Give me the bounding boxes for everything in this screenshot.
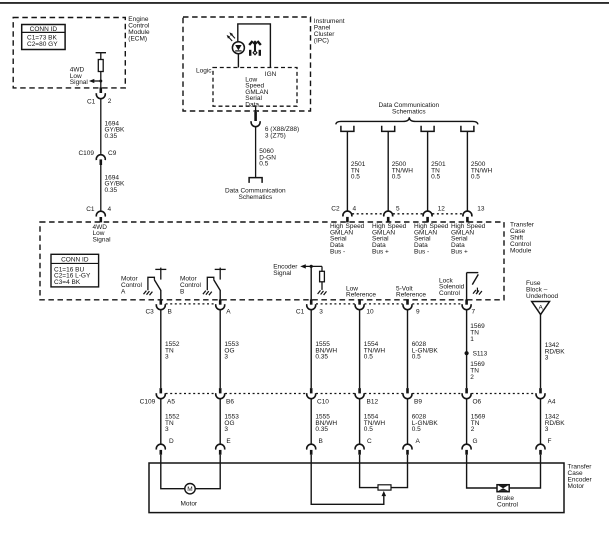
label 2501 TN 0.5 <box>431 161 446 181</box>
ECM label <box>128 16 150 43</box>
indicator lamp (4WD light) <box>227 32 245 67</box>
connector encoder motor pin F <box>536 438 552 463</box>
lock solenoid switch <box>467 273 479 300</box>
wire 2501 TN <box>427 131 429 211</box>
connector encoder motor pin E <box>216 438 232 463</box>
svg-text:B: B <box>168 308 172 315</box>
svg-text:Reference: Reference <box>346 292 376 299</box>
svg-text:0.5: 0.5 <box>431 174 440 181</box>
label 1553 OG 3 (lower) <box>224 414 239 434</box>
svg-text:3 (Z75): 3 (Z75) <box>265 133 286 140</box>
svg-text:2: 2 <box>471 426 475 433</box>
5-Volt Reference label <box>396 285 426 298</box>
wire 1342 RD/BK (lower) <box>540 399 542 444</box>
svg-text:G: G <box>473 438 478 445</box>
connector C109 pin A4 <box>536 388 556 406</box>
Engine Control Module (ECM) box <box>13 18 125 88</box>
svg-text:C109: C109 <box>140 399 156 406</box>
svg-text:2: 2 <box>108 98 112 105</box>
svg-text:A5: A5 <box>167 399 175 406</box>
resistor R (4WD low signal pull-up, in ECM) <box>96 53 106 88</box>
connector C1 pin 3 (TCSCM bottom) <box>296 299 323 315</box>
Logic label <box>196 67 212 74</box>
wire 1554 TN/WH (lower) <box>359 399 361 444</box>
svg-text:0.5: 0.5 <box>364 426 373 433</box>
svg-text:Reference: Reference <box>396 292 426 299</box>
label 1552 TN 3 (lower) <box>165 414 180 434</box>
svg-text:C9: C9 <box>108 150 117 157</box>
svg-text:0.5: 0.5 <box>364 354 373 361</box>
svg-text:C1: C1 <box>87 98 96 105</box>
brace <box>336 117 478 124</box>
svg-text:M: M <box>187 486 192 493</box>
svg-text:Control: Control <box>497 502 519 509</box>
Brake Control label <box>497 495 519 509</box>
svg-text:CONN ID: CONN ID <box>30 26 58 33</box>
4WD Low Signal label (ECM) <box>70 67 89 87</box>
label 1552 TN 3 (upper) <box>165 341 180 361</box>
connector C1 pin 7 (TCSCM bottom) <box>462 299 475 315</box>
svg-text:C109: C109 <box>78 150 94 157</box>
C2 label <box>331 206 340 213</box>
svg-text:Data: Data <box>245 102 259 109</box>
motor M (transfer case encoder motor) <box>161 463 220 494</box>
wire 1554 TN/WH (upper) <box>359 310 361 388</box>
High Speed GMLAN Serial Data Bus - label <box>330 223 365 255</box>
svg-text:Underhood: Underhood <box>526 293 559 300</box>
label 1569 TN 2 (upper) <box>470 361 485 381</box>
svg-text:0.35: 0.35 <box>315 426 328 433</box>
wire 1553 OG (lower) <box>219 399 221 444</box>
svg-text:3: 3 <box>224 426 228 433</box>
4WD low signal arrow <box>89 79 102 83</box>
Motor Control B label <box>180 276 202 296</box>
svg-text:Schematics: Schematics <box>238 194 272 201</box>
Transfer Case Shift Control Module box <box>40 222 504 300</box>
svg-text:5: 5 <box>396 206 400 213</box>
svg-text:CONN ID: CONN ID <box>61 257 89 264</box>
svg-text:3: 3 <box>319 308 323 315</box>
svg-text:3: 3 <box>224 354 228 361</box>
High Speed GMLAN Serial Data Bus + label <box>451 223 486 255</box>
label 1342 RD/BK 3 (lower) <box>545 414 566 434</box>
connector C109 pin A5 <box>156 388 175 406</box>
wire 1553 OG (upper) <box>219 310 221 388</box>
wire 1552 TN (upper) <box>160 310 162 388</box>
svg-text:Control: Control <box>439 290 461 297</box>
svg-text:B: B <box>180 288 184 295</box>
svg-text:Motor: Motor <box>180 500 197 507</box>
connector C109 pin B6 <box>216 388 235 406</box>
label 1569 TN 2 (lower) <box>471 414 486 434</box>
svg-text:A: A <box>416 438 421 445</box>
svg-text:F: F <box>548 438 552 445</box>
label 1553 OG 3 (upper) <box>224 341 239 361</box>
connector 6 (X88/Z88) 3 (Z75) <box>251 107 299 140</box>
wire 1555 BN/WH (lower) <box>310 399 312 444</box>
svg-text:C2=80 GY: C2=80 GY <box>27 41 58 48</box>
svg-text:0.5: 0.5 <box>471 174 480 181</box>
label 6028 L-GN/BK 0.5 (lower) <box>412 414 439 434</box>
off-page connector to data communication schematics <box>249 178 262 183</box>
svg-text:Bus +: Bus + <box>372 248 389 255</box>
label 6028 L-GN/BK 0.5 (upper) <box>412 341 439 361</box>
4WD Low Signal label (TCSCM) <box>93 224 112 244</box>
wire 2500 TN/WH <box>466 131 468 211</box>
logic inner box <box>213 68 297 107</box>
svg-text:C3=4 BK: C3=4 BK <box>54 279 81 286</box>
svg-text:0.5: 0.5 <box>259 161 268 168</box>
C3 connector dotted link <box>166 303 216 305</box>
connector C1 pin 9 (TCSCM bottom) <box>403 299 420 315</box>
svg-text:(ECM): (ECM) <box>128 36 147 43</box>
wire 1342 RD/BK (upper) <box>540 315 542 389</box>
label 1694 GY/BK 0.35 (upper) <box>105 120 126 140</box>
svg-text:3: 3 <box>545 426 549 433</box>
connector C3 pin A (TCSCM bottom) <box>216 299 231 315</box>
svg-text:1: 1 <box>470 336 474 343</box>
svg-text:10: 10 <box>366 308 374 315</box>
Encoder Signal label <box>273 263 298 277</box>
svg-text:O6: O6 <box>473 399 482 406</box>
wire 6028 L-GN/BK (lower) <box>407 399 409 444</box>
wire 1569 TN (lower) <box>466 399 468 444</box>
svg-text:12: 12 <box>438 206 446 213</box>
connector encoder motor pin A <box>403 438 421 463</box>
connector encoder motor pin C <box>355 438 372 463</box>
TCSCM label <box>510 221 535 254</box>
svg-text:C3: C3 <box>145 308 154 315</box>
svg-text:A: A <box>539 305 544 312</box>
label 1554 TN/WH 0.5 (lower) <box>364 414 386 434</box>
svg-text:0.5: 0.5 <box>392 174 401 181</box>
svg-text:0.5: 0.5 <box>412 426 421 433</box>
C109 label <box>140 399 156 406</box>
wire 2501 TN <box>346 131 348 211</box>
Transfer Case Encoder Motor box <box>149 463 564 513</box>
encoder position potentiometer <box>360 463 408 490</box>
Data Communication Schematics label (bottom) <box>225 188 286 202</box>
svg-text:S113: S113 <box>473 350 488 357</box>
svg-text:E: E <box>226 438 231 445</box>
label 1554 TN/WH 0.5 (upper) <box>364 341 386 361</box>
svg-text:C: C <box>367 438 372 445</box>
svg-text:C1: C1 <box>86 206 95 213</box>
off-page connector (bus wire 4) <box>461 126 474 132</box>
svg-text:3: 3 <box>545 355 549 362</box>
wire 5060 D-GN 0.5 <box>255 127 257 178</box>
svg-text:Bus -: Bus - <box>330 248 345 255</box>
TCSCM CONN ID table <box>51 254 99 287</box>
connector C3 pin B (TCSCM bottom) <box>145 299 171 315</box>
fuse block terminal A (triangle) <box>532 302 550 315</box>
svg-text:0.5: 0.5 <box>412 354 421 361</box>
svg-text:Signal: Signal <box>93 236 112 243</box>
connector C1 pin 4 (TCSCM) <box>86 206 111 222</box>
IPC label <box>314 18 345 44</box>
connector C109 pin B12 <box>355 388 378 406</box>
connector C2 pin 5 <box>384 206 400 223</box>
svg-text:Module: Module <box>510 247 532 254</box>
connector encoder motor pin D <box>156 438 174 463</box>
wire 1694 (lower) <box>100 165 102 211</box>
off-page connector (bus wire 2) <box>382 126 395 132</box>
C2 connector dotted link <box>352 213 463 215</box>
label 2501 TN 0.5 <box>351 161 366 181</box>
label 1555 BN/WH 0.35 (lower) <box>315 414 337 434</box>
C109 connector dotted link <box>166 393 536 395</box>
svg-text:Schematics: Schematics <box>392 109 426 116</box>
wire loop to IGN <box>238 24 271 68</box>
Transfer Case Encoder Motor label <box>568 463 593 490</box>
svg-text:3: 3 <box>165 426 169 433</box>
svg-text:B9: B9 <box>414 399 422 406</box>
connector encoder motor pin B <box>307 438 323 463</box>
Lock Solenoid Control label <box>439 277 465 297</box>
wire 1555 BN/WH (upper) <box>310 310 312 388</box>
connector C1 pin 10 (TCSCM bottom) <box>355 299 374 315</box>
label 1569 TN 1 <box>470 323 485 343</box>
svg-text:0.35: 0.35 <box>315 354 328 361</box>
svg-text:4: 4 <box>353 206 357 213</box>
svg-text:Bus +: Bus + <box>451 248 468 255</box>
svg-text:C2: C2 <box>331 206 340 213</box>
off-page connector (bus wire 1) <box>341 126 354 132</box>
connector C2 pin 12 <box>423 206 445 223</box>
label 2500 TN/WH 0.5 <box>392 161 414 181</box>
wire 1552 TN (lower) <box>160 399 162 444</box>
svg-text:B: B <box>319 438 323 445</box>
wire 1694 (upper) <box>100 99 102 154</box>
Fuse Block - Underhood label <box>526 280 559 300</box>
svg-text:9: 9 <box>416 308 420 315</box>
Low Reference label <box>346 285 376 298</box>
encoder pull-up resistor <box>320 266 325 290</box>
ground (lock solenoid) <box>473 288 482 295</box>
connector C109 pin C10 <box>307 388 330 406</box>
svg-text:0.35: 0.35 <box>105 133 118 140</box>
svg-text:7: 7 <box>472 308 476 315</box>
ground (encoder resistor) <box>318 290 327 295</box>
brake control solenoid <box>467 463 541 492</box>
Motor label <box>180 500 197 507</box>
encoder signal arrow <box>300 264 322 268</box>
connector C109 pin O6 <box>462 388 481 406</box>
wire 6028 L-GN/BK (upper) <box>407 310 409 388</box>
svg-text:0.5: 0.5 <box>351 174 360 181</box>
potentiometer wiper wire with arrow <box>311 463 386 504</box>
label 2500 TN/WH 0.5 <box>471 161 493 181</box>
svg-text:IGN: IGN <box>265 71 277 78</box>
label 5060 D-GN 0.5 <box>259 148 276 168</box>
High Speed GMLAN Serial Data Bus + label <box>372 223 407 255</box>
AWD drivetrain icon <box>249 40 261 55</box>
svg-text:Bus -: Bus - <box>414 248 429 255</box>
wire 1569 TN (pin 7 to S113 to O6) <box>466 310 468 388</box>
svg-text:C10: C10 <box>317 399 329 406</box>
connector encoder motor pin G <box>462 438 477 463</box>
switch Motor Control A with ground <box>144 268 167 300</box>
label 1342 RD/BK 3 (upper) <box>545 342 566 362</box>
wire 2500 TN/WH <box>387 131 389 211</box>
svg-text:A4: A4 <box>548 399 556 406</box>
svg-text:4: 4 <box>108 206 112 213</box>
Low Speed GMLAN Serial Data label <box>245 76 268 108</box>
off-page connector (bus wire 3) <box>421 126 434 132</box>
ECM CONN ID table <box>22 25 65 50</box>
svg-text:A: A <box>121 288 126 295</box>
label 1694 GY/BK 0.35 (lower) <box>105 174 126 194</box>
wire encoder signal to pin 3 <box>310 266 312 299</box>
svg-text:B6: B6 <box>226 399 234 406</box>
connector C109 pin B9 <box>403 388 422 406</box>
svg-text:Motor: Motor <box>568 483 585 490</box>
svg-text:D: D <box>169 438 174 445</box>
Motor Control A label <box>121 276 143 296</box>
svg-text:A: A <box>226 308 231 315</box>
svg-text:C1: C1 <box>296 308 305 315</box>
svg-text:2: 2 <box>470 374 474 381</box>
Instrument Panel Cluster (IPC) box <box>183 17 311 111</box>
svg-text:Logic: Logic <box>196 67 212 74</box>
C1 connector dotted link <box>316 303 462 305</box>
High Speed GMLAN Serial Data Bus - label <box>414 223 449 255</box>
svg-text:Signal: Signal <box>70 79 89 86</box>
svg-text:13: 13 <box>477 206 485 213</box>
connector C109 pin C9 <box>78 150 116 165</box>
svg-text:B12: B12 <box>367 399 379 406</box>
IGN label <box>265 71 277 78</box>
connector C2 pin 13 <box>463 206 485 223</box>
Data Communication Schematics label (top) <box>378 102 439 116</box>
svg-text:Signal: Signal <box>273 270 292 277</box>
svg-text:0.35: 0.35 <box>105 187 118 194</box>
svg-text:(IPC): (IPC) <box>314 37 329 44</box>
switch Motor Control B with ground <box>203 268 226 300</box>
splice S113 <box>465 350 488 357</box>
svg-text:3: 3 <box>165 354 169 361</box>
label 1555 BN/WH 0.35 (upper) <box>315 341 337 361</box>
connector C1 pin 2 (ECM) <box>87 87 112 105</box>
connector C2 pin 4 <box>343 206 357 223</box>
